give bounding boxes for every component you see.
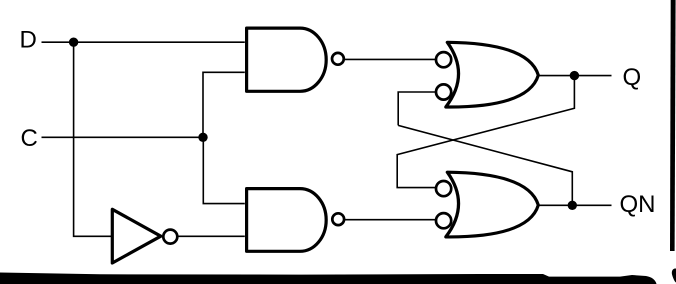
svg-text:C: C bbox=[21, 125, 38, 152]
wire D to inverter bbox=[74, 42, 111, 236]
border bar right bbox=[670, 0, 676, 251]
wire Q output bbox=[538, 75, 612, 77]
inverter U5 output bubble bbox=[163, 230, 177, 244]
svg-text:QN: QN bbox=[620, 191, 656, 218]
nor-style gate U3 body bbox=[446, 42, 539, 107]
wire inverter out to NAND2 bbox=[179, 235, 245, 237]
wire NAND2 out to U4 bbox=[345, 219, 436, 221]
node D junction bbox=[69, 38, 78, 47]
nand gate U2 body bbox=[247, 189, 327, 252]
wire QN feedback to U3 bbox=[398, 92, 435, 125]
node QN junction bbox=[568, 201, 577, 210]
wire Q feedback diagonal bbox=[397, 76, 574, 188]
wire C input bbox=[42, 136, 204, 138]
wire diagonal QN cross bbox=[398, 125, 572, 201]
svg-text:Q: Q bbox=[623, 64, 642, 91]
border bar bottom bbox=[0, 273, 657, 284]
nor-style gate U4 body bbox=[446, 172, 539, 237]
wire QN output bbox=[538, 204, 612, 206]
gate U3 input bubble 1 bbox=[436, 52, 451, 67]
nand gate U2 output bubble bbox=[332, 213, 344, 225]
gate U3 input bubble 2 bbox=[436, 84, 451, 99]
gate U4 input bubble 2 bbox=[436, 213, 451, 228]
node C junction bbox=[198, 133, 207, 142]
svg-text:D: D bbox=[20, 26, 37, 53]
node Q junction bbox=[570, 71, 579, 80]
wire NAND1 out to U3 bbox=[345, 58, 436, 60]
wire C to NAND1 bbox=[203, 72, 245, 137]
wire C to NAND2 bbox=[203, 137, 245, 203]
nand gate U1 body bbox=[247, 28, 327, 91]
border speck bottom-right bbox=[672, 268, 676, 282]
nand gate U1 output bubble bbox=[332, 53, 344, 65]
wire D input bbox=[42, 41, 245, 43]
inverter U5 body bbox=[112, 209, 161, 263]
gate U4 input bubble 1 bbox=[436, 181, 451, 196]
